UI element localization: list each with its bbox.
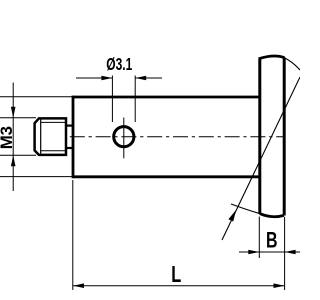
dimension Ø3.1 extension line left bbox=[111, 76, 113, 123]
leader line SR (diagonal) bbox=[222, 77, 300, 240]
dimension B line with outside arrows bbox=[239, 250, 300, 255]
thread root line bottom bbox=[41, 150, 66, 152]
thread relief neck bbox=[66, 126, 73, 148]
svg-text:L: L bbox=[171, 261, 181, 287]
dimension Ø3.1 arrow left bbox=[76, 76, 112, 81]
disc left face bbox=[258, 59, 261, 214]
dimension Ø3.1 label bbox=[106, 54, 132, 74]
dimension Ø3.1 extension line right bbox=[134, 76, 136, 123]
dimension L line with arrows bbox=[73, 283, 285, 288]
dimension M3 line with outside arrows bbox=[11, 83, 16, 192]
extension line body top (to off-image diameter dim) bbox=[0, 96, 72, 98]
dimension L label bbox=[171, 261, 181, 287]
sphere silhouette arc bottom left bbox=[231, 204, 260, 214]
dimension M3 extension line top bbox=[0, 117, 36, 119]
dimension Ø3.1 arrow right bbox=[135, 76, 162, 81]
thread chamfer line bbox=[40, 118, 42, 154]
dimension B extension line left bbox=[258, 217, 260, 259]
extension line body bottom (to off-image diameter dim) bbox=[0, 176, 72, 178]
dimension B label bbox=[266, 228, 278, 253]
centerline horizontal bbox=[44, 136, 284, 138]
dimension M3 extension line bottom bbox=[0, 154, 36, 156]
thread stub M3 outline bbox=[35, 118, 66, 154]
body cylinder outline bbox=[73, 96, 260, 179]
thread root line top bbox=[41, 121, 66, 123]
dimension M3 label (rotated) bbox=[0, 126, 16, 149]
disc right face bbox=[283, 57, 286, 215]
dimension L extension line left bbox=[72, 180, 74, 290]
hole circle bbox=[114, 127, 134, 147]
svg-text:Ø3.1: Ø3.1 bbox=[106, 54, 132, 74]
disc bottom edge arc bbox=[260, 214, 284, 217]
sphere silhouette arc top right bbox=[284, 58, 300, 70]
svg-text:B: B bbox=[266, 228, 278, 253]
dimension B / L shared extension line right bbox=[284, 217, 286, 290]
disc top edge arc bbox=[259, 56, 285, 59]
centerline vertical through hole bbox=[123, 118, 125, 159]
